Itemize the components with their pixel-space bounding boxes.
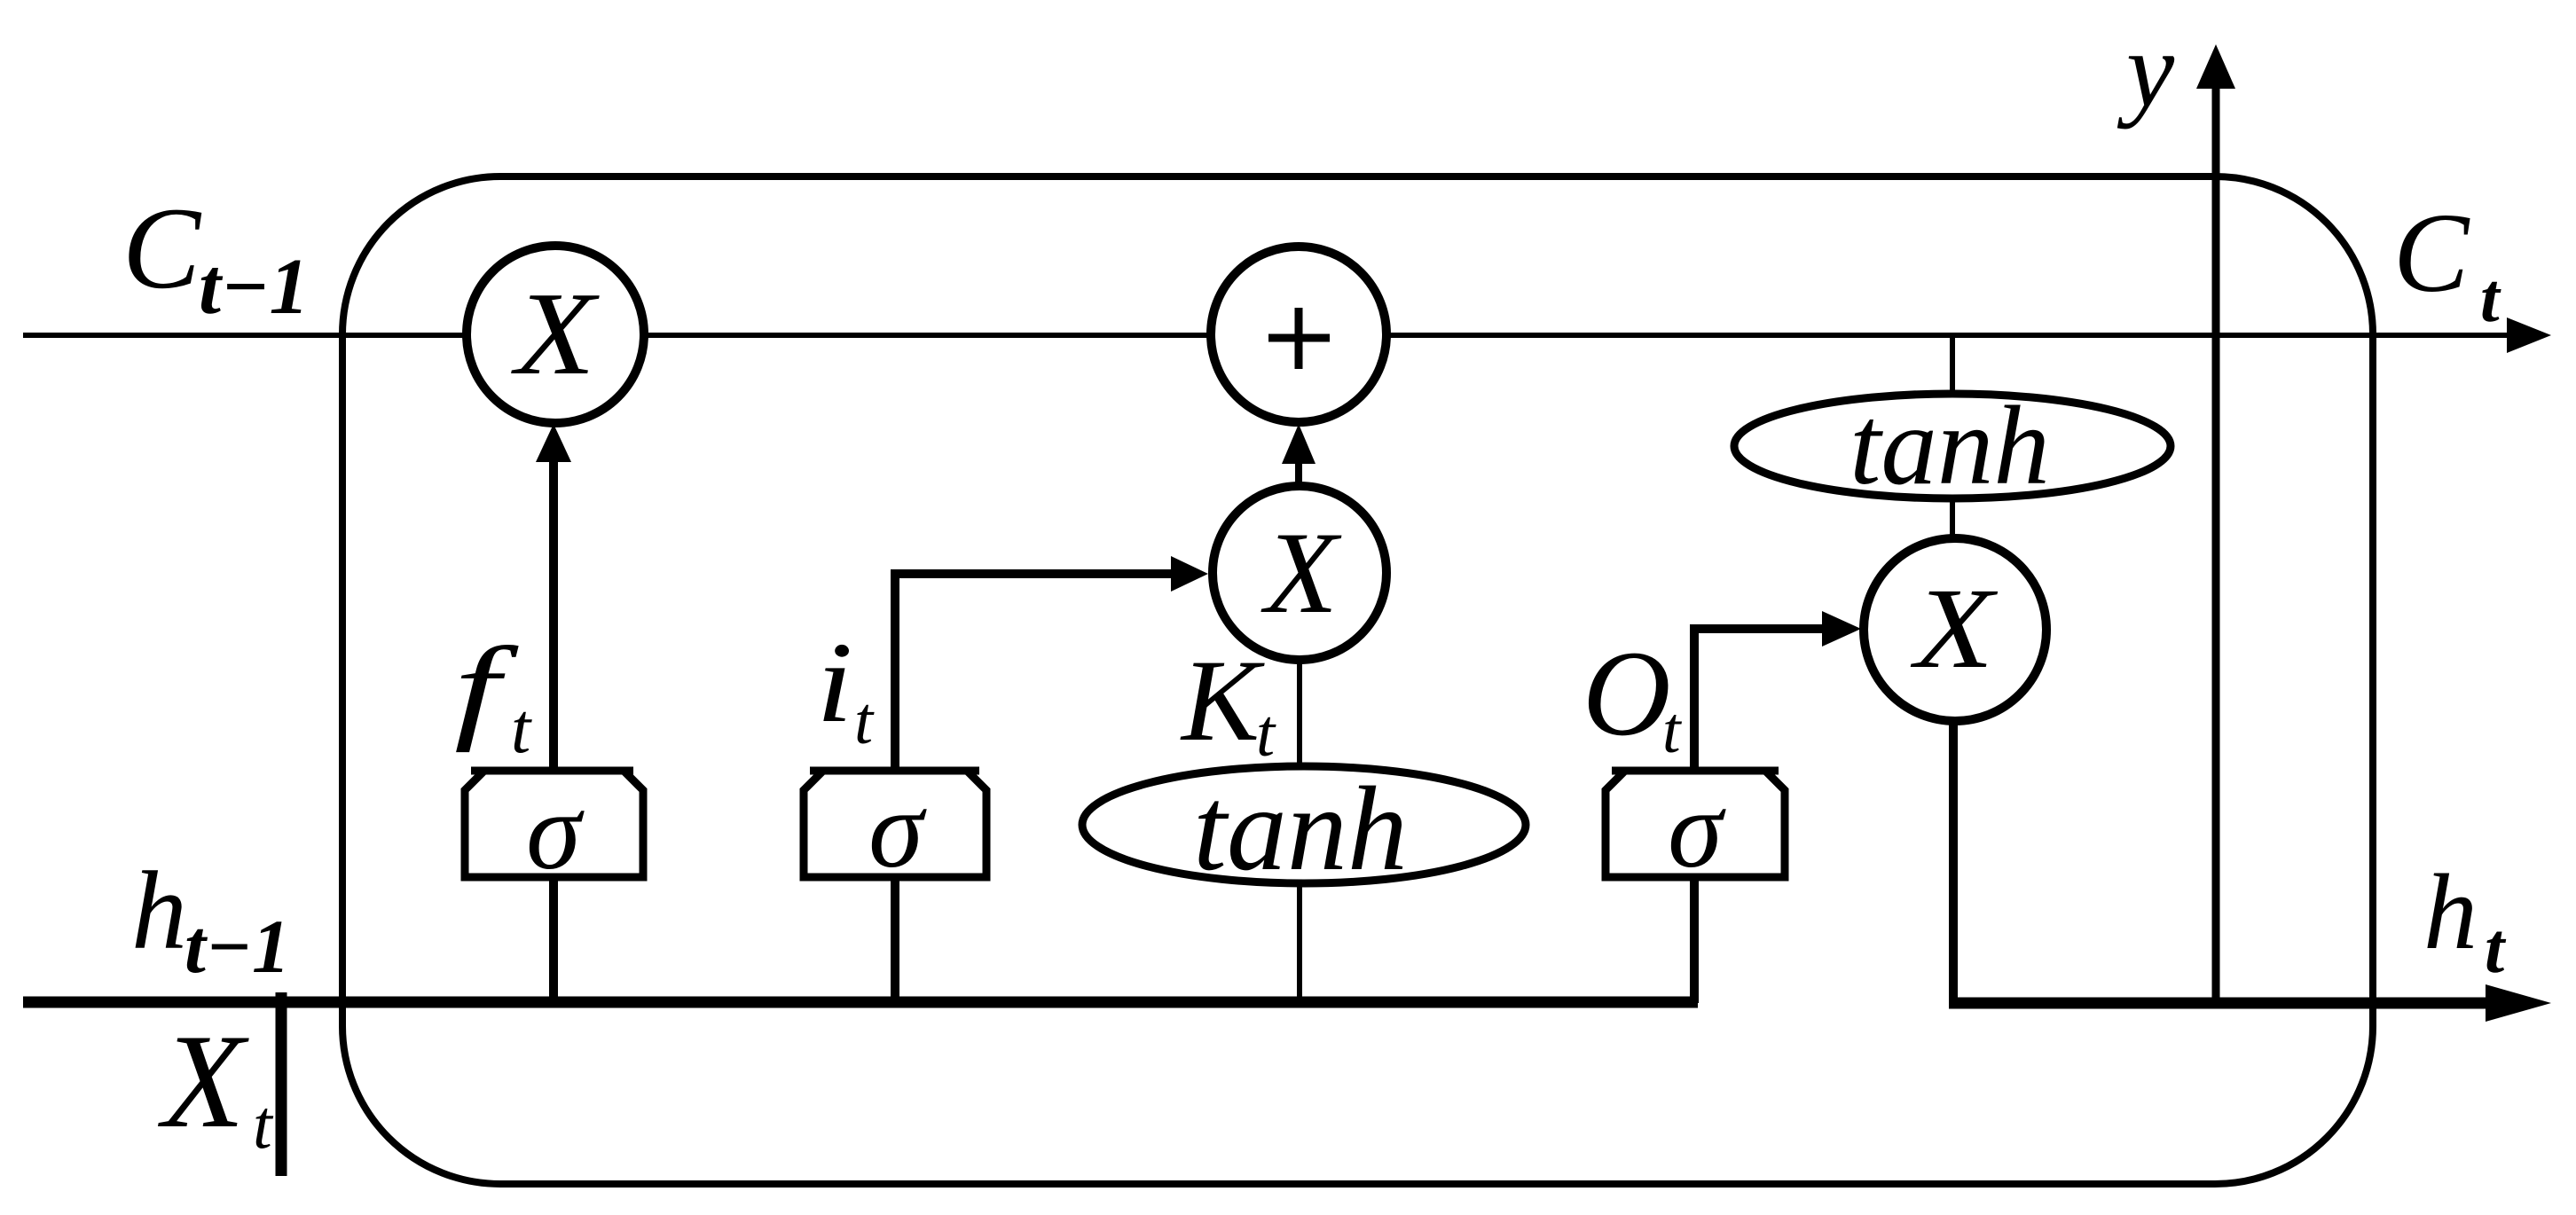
- arrowhead of C_t output: [2507, 317, 2551, 353]
- svg-text:tanh: tanh: [1193, 763, 1408, 896]
- svg-text:tanh: tanh: [1850, 384, 2050, 508]
- multiply node X (output gate): [1864, 538, 2046, 721]
- arrowhead into multiply node (forget gate): [536, 424, 571, 462]
- sigma box (forget gate): [465, 771, 643, 877]
- svg-text:X: X: [1261, 507, 1342, 638]
- svg-text:t: t: [2485, 910, 2507, 988]
- svg-text:O: O: [1583, 625, 1671, 761]
- wire: input gate line from sigma box down to h line: [891, 876, 899, 1003]
- multiply node X (input/candidate): [1213, 486, 1386, 660]
- svg-text:σ: σ: [868, 769, 927, 891]
- wire: output gate line from sigma box down to h line: [1690, 876, 1699, 1003]
- svg-text:i: i: [816, 619, 853, 747]
- svg-text:t: t: [1256, 696, 1276, 771]
- wire: arrow from middle multiply node up to add node: [1295, 432, 1302, 487]
- sigma box (input gate): [804, 771, 986, 877]
- wire: input gate vertical line: [891, 569, 899, 772]
- wire: link from C line down to right tanh: [1950, 335, 1955, 397]
- sigma box (output gate): [1606, 771, 1785, 877]
- LSTM cell boundary rounded rectangle: [342, 176, 2373, 1184]
- svg-text:h: h: [2423, 852, 2478, 972]
- arrowhead into right multiply node (output gate): [1822, 611, 1861, 647]
- wire: forget gate vertical line up to multiply node: [549, 443, 558, 770]
- multiply node X (forget gate, on C line): [467, 246, 644, 423]
- wire: candidate line from tanh down to h line: [1297, 883, 1302, 1003]
- wire: X_t input vertical line: [276, 992, 287, 1176]
- svg-text:t: t: [511, 690, 532, 768]
- svg-text:K: K: [1180, 635, 1265, 765]
- wire: line from right multiply node down to h_t line: [1949, 717, 1958, 1003]
- svg-text:t−1: t−1: [185, 904, 290, 989]
- wire: hidden state input line h (bottom, left segment): [23, 997, 1698, 1008]
- svg-text:t: t: [854, 684, 875, 758]
- svg-text:C: C: [122, 183, 202, 313]
- svg-text:X: X: [1910, 564, 1998, 692]
- add node + (on C line): [1211, 247, 1386, 422]
- svg-text:h: h: [131, 850, 187, 973]
- wire: output gate vertical line: [1690, 624, 1699, 772]
- wire: candidate K_t line from multiply node down to tanh: [1297, 661, 1302, 772]
- wire: input gate horizontal line to multiply node: [891, 569, 1180, 578]
- svg-text:t: t: [253, 1086, 274, 1163]
- arrowhead into middle multiply node (input gate): [1171, 556, 1208, 592]
- wire: forget gate line from sigma box down to h line: [549, 876, 558, 1003]
- wire: link from right tanh down to right multiply node: [1950, 495, 1955, 541]
- tanh ellipse (candidate activation, middle): [1082, 766, 1526, 883]
- svg-text:X: X: [511, 268, 600, 399]
- arrowhead of y axis: [2196, 44, 2235, 89]
- wire: cell state line C (horizontal): [23, 333, 2519, 338]
- arrowhead of h_t output: [2486, 984, 2551, 1022]
- svg-text:σ: σ: [526, 771, 585, 893]
- svg-text:C: C: [2393, 190, 2470, 316]
- wire: output gate horizontal line to right multiply node: [1690, 624, 1829, 633]
- svg-text:t: t: [1662, 694, 1683, 767]
- svg-text:σ: σ: [1668, 769, 1726, 891]
- tanh ellipse (output activation, right): [1734, 394, 2171, 498]
- wire: hidden state output line h_t (bottom, right segment): [1949, 998, 2501, 1009]
- svg-text:t−1: t−1: [199, 243, 310, 331]
- svg-text:t: t: [2480, 259, 2501, 336]
- wire: y output axis (vertical): [2212, 82, 2220, 1003]
- svg-text:X: X: [157, 1007, 249, 1156]
- arrowhead into add node: [1282, 424, 1315, 464]
